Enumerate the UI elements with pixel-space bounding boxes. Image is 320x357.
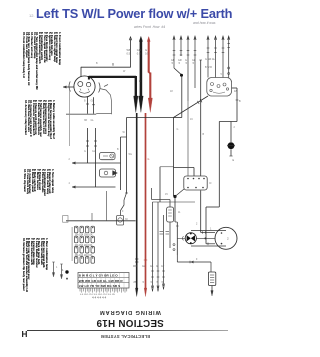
rotated caption: electrical system bbox=[104, 334, 150, 339]
svg-text:.5: .5 bbox=[192, 62, 195, 65]
svg-text:GL: GL bbox=[91, 119, 95, 122]
node: junction dot at relay feed bbox=[173, 189, 184, 198]
svg-text:.5: .5 bbox=[142, 282, 145, 284]
svg-text:4 4 4 4 4 4: 4 4 4 4 4 4 bbox=[92, 296, 107, 300]
svg-text:GY: GY bbox=[161, 266, 165, 268]
svg-text:0.5: 0.5 bbox=[127, 52, 131, 56]
flasher unit box lower with contact arrow bbox=[100, 169, 118, 177]
wire: feed wires to flasher area with connectors bbox=[86, 128, 97, 187]
svg-text:B: B bbox=[96, 62, 98, 65]
wire color code legend table bbox=[78, 273, 129, 289]
svg-text:GB: GB bbox=[137, 48, 141, 52]
rear turn signal bulb symbol bbox=[185, 233, 196, 244]
rotated caption: section h19 bbox=[94, 317, 166, 328]
svg-text:3B: 3B bbox=[84, 119, 87, 122]
wire: lower black main harness line down to arrow bbox=[135, 113, 138, 297]
svg-text:16: 16 bbox=[190, 118, 193, 121]
legend comb ticks bbox=[80, 288, 127, 293]
red power flow bar with up and down arrows bbox=[147, 37, 152, 113]
svg-text:WR: WR bbox=[133, 266, 137, 268]
svg-text:B W R: B W R bbox=[205, 66, 212, 69]
svg-text:2: 2 bbox=[69, 158, 71, 161]
bulb connector stubs left of rear lamp bbox=[173, 226, 185, 251]
ignition feed wire with connector dots bbox=[227, 36, 230, 78]
wire: bottom rail under lamp bbox=[66, 113, 96, 115]
svg-text:B W R G L Y GY BR LG O: B W R G L Y GY BR LG O bbox=[79, 274, 119, 278]
node: switch common junction bbox=[174, 68, 183, 77]
legend block 2 bbox=[23, 100, 54, 139]
svg-text:WB WR GB GR GL GW RB R: WB WR GB GR GL GW RB R bbox=[79, 279, 124, 283]
wire: left branch to lamp rails bbox=[153, 167, 196, 202]
wire: mid vertical bus bbox=[199, 60, 202, 233]
svg-text:F: F bbox=[196, 258, 198, 261]
svg-text:1: 1 bbox=[62, 268, 64, 272]
wire: common feed from junction down and across to relay bbox=[174, 76, 195, 197]
hazard switch feed wires with arrows and connectors bbox=[205, 36, 224, 77]
wire: right side loop from switch bbox=[219, 88, 241, 207]
wire: fusible link riser and crossover bbox=[121, 118, 174, 216]
hazard switch unit bbox=[207, 78, 238, 97]
node: legend key dot bbox=[62, 268, 69, 280]
svg-text:G: G bbox=[177, 128, 179, 131]
wire: lamp lead joins bottom rail bbox=[96, 106, 111, 114]
svg-text:5: 5 bbox=[221, 73, 223, 76]
svg-text:G: G bbox=[148, 158, 150, 161]
wire: junction continues down to rear lamp circuit bbox=[175, 197, 177, 256]
wire: rear lamp feeds with connectors bbox=[196, 223, 215, 246]
thick black W/L power flow highlight from lamp, right then down to arrow bbox=[89, 76, 138, 113]
svg-text:B: B bbox=[239, 100, 241, 103]
capacitor / noise suppressor with ground stub bbox=[227, 122, 235, 163]
svg-text:G: G bbox=[156, 266, 158, 268]
ground arrow symbols near legend bbox=[52, 262, 63, 279]
legend comb tiny figures bbox=[80, 294, 115, 300]
title annotation mark bbox=[29, 13, 35, 18]
fuse box terminal dots and labels bbox=[72, 227, 94, 261]
fusible link box bbox=[117, 216, 124, 226]
wire: thin earth return wire from lamp to top arrow bbox=[81, 37, 132, 77]
svg-text:15: 15 bbox=[165, 193, 168, 196]
svg-text:WL: WL bbox=[129, 153, 133, 156]
svg-text:B: B bbox=[112, 63, 114, 67]
thick black earth flow bar with up and down arrows bbox=[139, 36, 144, 112]
svg-text:1: 1 bbox=[210, 228, 212, 231]
svg-text:GB: GB bbox=[150, 266, 154, 268]
svg-text:11: 11 bbox=[178, 211, 181, 214]
rear combination lamp housing bbox=[191, 231, 226, 246]
svg-text:W: W bbox=[123, 70, 126, 73]
wire: vertical riser right of flashers bbox=[121, 137, 127, 190]
wire: rail to left arrow lower bbox=[72, 186, 116, 188]
annotation under title bbox=[193, 21, 215, 25]
wire: lamp bottom leads with connectors bbox=[86, 97, 95, 114]
svg-text:0.5: 0.5 bbox=[145, 52, 149, 56]
bottom rule bbox=[27, 329, 228, 332]
turn signal switch feed wires with up arrows and connectors bbox=[173, 36, 197, 101]
turn signal relay unit with pins bbox=[184, 176, 212, 190]
svg-text:B: B bbox=[84, 100, 86, 103]
front turn signal lamp (front combination lamp) bbox=[69, 76, 100, 97]
svg-text:G: G bbox=[84, 150, 86, 153]
svg-text:.5: .5 bbox=[171, 62, 174, 65]
svg-text:15A 10A 15A 10A: 15A 10A 15A 10A bbox=[75, 234, 93, 237]
legend block 1 bbox=[22, 32, 60, 89]
annotation above diagram bbox=[134, 25, 165, 29]
wire: tail harness wires with double connectors and end arrows bbox=[151, 202, 165, 292]
side flasher resistor box bbox=[152, 188, 174, 248]
wire color code labels beside flow bars bbox=[127, 48, 150, 56]
svg-text:15A 10A 10A 15A: 15A 10A 10A 15A bbox=[75, 254, 93, 257]
wire: corner from right loop to rear lamp bbox=[206, 207, 219, 244]
rotated caption: wiring diagram bbox=[99, 309, 161, 315]
svg-text:F: F bbox=[122, 210, 124, 213]
fuse box grid bbox=[75, 226, 95, 263]
wire: lamp right lead going down bbox=[100, 85, 112, 107]
svg-text:.5: .5 bbox=[185, 62, 188, 65]
wire: lamp left stub with arrow bbox=[63, 86, 74, 88]
wire code labels at tail harness bbox=[133, 266, 165, 284]
wire: rail to left arrow (to fuse block) upper bbox=[72, 162, 121, 164]
legend block 4 bbox=[22, 238, 47, 292]
svg-text:D: D bbox=[210, 181, 212, 185]
wire: left frame border segment bbox=[69, 88, 71, 146]
svg-text:G GR GL: G GR GL bbox=[205, 58, 216, 61]
svg-text:E: E bbox=[233, 159, 235, 162]
svg-text:18: 18 bbox=[170, 90, 173, 93]
svg-text:W: W bbox=[123, 131, 126, 134]
wire: main battery rail bbox=[63, 216, 136, 223]
wire: lower red harness line down to arrow bbox=[144, 113, 147, 297]
assorted pin number labels bbox=[56, 62, 236, 269]
legend block 3 bbox=[22, 169, 53, 196]
svg-text:B: B bbox=[203, 133, 205, 136]
svg-text:LW LR YB YR BW RG SB S: LW LR YB YR BW RG SB S bbox=[79, 284, 121, 288]
svg-text:0.5: 0.5 bbox=[137, 52, 141, 56]
connector pair before rear lamp bbox=[160, 232, 170, 235]
svg-text:2: 2 bbox=[196, 223, 198, 226]
svg-text:10A 15A 10A 15A: 10A 15A 10A 15A bbox=[75, 244, 93, 247]
svg-text:1: 1 bbox=[56, 266, 58, 269]
svg-text:2: 2 bbox=[227, 237, 229, 241]
page letter H bbox=[22, 330, 28, 339]
wire: feeds from rails down to battery rail bbox=[92, 191, 107, 221]
ballast resistor unit bbox=[208, 272, 215, 296]
svg-text:.5: .5 bbox=[178, 62, 181, 65]
svg-text:4: 4 bbox=[69, 182, 71, 185]
svg-text:WB: WB bbox=[127, 48, 131, 52]
flasher unit box upper bbox=[100, 153, 116, 160]
svg-text:2: 2 bbox=[234, 126, 236, 129]
rear lamp lens circle bbox=[215, 227, 237, 249]
page title bbox=[36, 6, 232, 21]
wire: switch diagonal drop with connector bbox=[174, 96, 209, 118]
svg-text:G: G bbox=[145, 48, 147, 52]
wire: drop to ballast resistor bbox=[177, 255, 211, 272]
svg-text:B: B bbox=[117, 148, 119, 151]
wire labels on switch feeds bbox=[171, 59, 196, 65]
